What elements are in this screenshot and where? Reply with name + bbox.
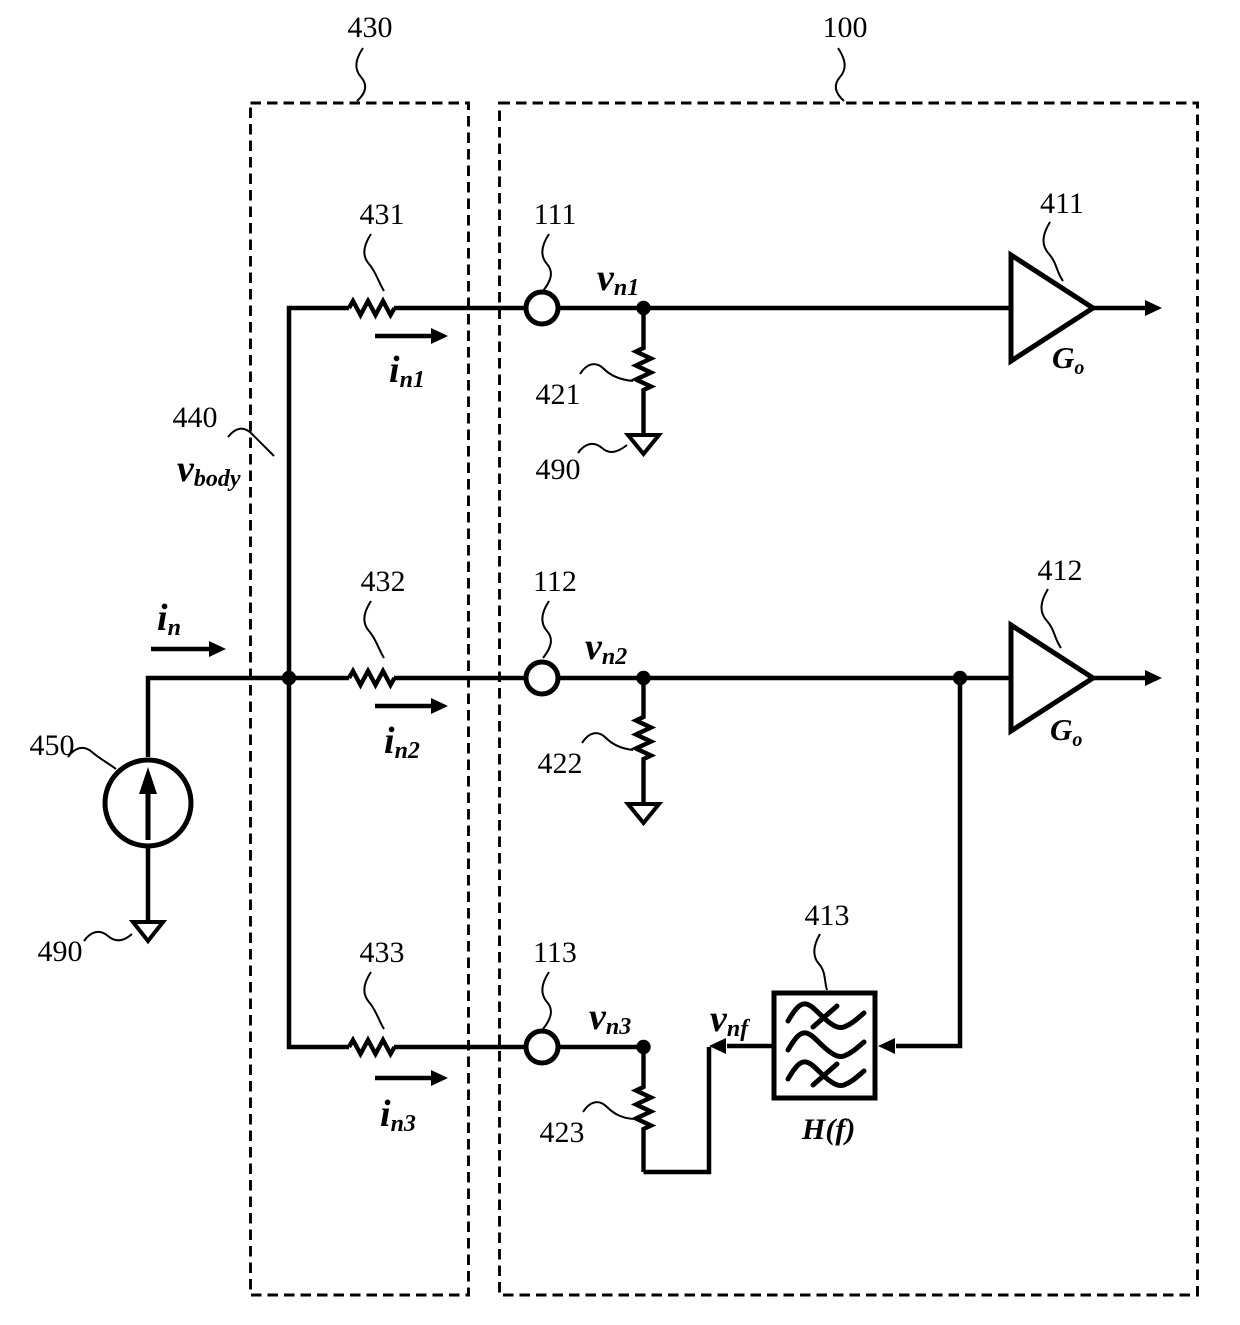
leader squiggle for 432 xyxy=(364,601,384,658)
label 490 (ground of 421) xyxy=(536,453,581,486)
leader squiggle for 423 xyxy=(583,1102,633,1119)
leader squiggle for 450 xyxy=(68,748,116,769)
leader squiggle for 430 xyxy=(356,48,365,101)
arrowhead at v_nf corner xyxy=(709,1038,726,1054)
node label v_n2 xyxy=(585,626,627,670)
filter wave bottom with slash xyxy=(788,1062,864,1086)
current label i_n3 xyxy=(380,1093,416,1137)
current label i_n2 xyxy=(384,720,420,764)
label 411 xyxy=(1040,187,1084,220)
wire: terminal 112 to amplifier 412 input xyxy=(559,676,1011,681)
gain label G_o of 411 xyxy=(1052,340,1084,379)
svg-text:in: in xyxy=(157,597,181,641)
leader squiggle for 490 upper xyxy=(578,444,627,453)
label 100 xyxy=(823,11,868,44)
terminal circle 111 xyxy=(526,292,558,324)
svg-text:490: 490 xyxy=(38,935,83,968)
svg-text:100: 100 xyxy=(823,11,868,44)
wire: resistor 431 to terminal 111 xyxy=(394,306,525,311)
label 440 xyxy=(173,401,218,434)
node label v_body xyxy=(177,448,241,492)
leader squiggle for 111 xyxy=(542,234,551,291)
leader squiggle for 490 lower left xyxy=(84,932,132,941)
leader squiggle for 433 xyxy=(364,972,384,1029)
svg-text:433: 433 xyxy=(360,936,405,969)
svg-text:112: 112 xyxy=(533,565,577,598)
svg-text:421: 421 xyxy=(536,378,581,411)
label 113 xyxy=(533,936,577,969)
svg-text:Go: Go xyxy=(1050,712,1082,751)
junction dot at bus row 2 xyxy=(282,671,296,685)
node label v_n1 xyxy=(597,257,639,301)
svg-text:in1: in1 xyxy=(389,349,425,393)
terminal circle 113 xyxy=(526,1031,558,1063)
filter 413 box xyxy=(774,993,875,1098)
junction dot feedback takeoff xyxy=(953,671,967,685)
current label i_n xyxy=(157,597,181,641)
node dot v_n3 xyxy=(636,1040,650,1054)
dashed block 100 (amplifier system) xyxy=(500,103,1198,1295)
current source 450 xyxy=(105,760,191,846)
amplifier 411 xyxy=(1011,255,1093,361)
current arrow i_n xyxy=(151,641,226,657)
wire: resistor 432 to terminal 112 xyxy=(394,676,525,681)
leader squiggle for 413 xyxy=(814,934,827,990)
svg-text:450: 450 xyxy=(30,729,75,762)
node label v_n3 xyxy=(589,996,631,1040)
wire: terminal 113 to node v_n3 xyxy=(559,1045,644,1050)
wire: resistor 423 bottom to v_nf corner xyxy=(644,1047,710,1172)
leader squiggle for 440 xyxy=(228,429,274,456)
svg-text:H(f): H(f) xyxy=(801,1113,855,1146)
leader squiggle for 113 xyxy=(542,972,551,1029)
label 422 xyxy=(538,747,583,780)
svg-text:422: 422 xyxy=(538,747,583,780)
wire: resistor 433 to terminal 113 xyxy=(394,1045,525,1050)
leader squiggle for 422 xyxy=(582,733,633,750)
filter wave top with slash xyxy=(788,1004,864,1028)
svg-text:423: 423 xyxy=(540,1116,585,1149)
resistor 421 xyxy=(636,308,651,435)
svg-text:Go: Go xyxy=(1052,340,1084,379)
label 421 xyxy=(536,378,581,411)
label 490 (lower left ground) xyxy=(38,935,83,968)
wire: terminal 111 to amplifier 411 input xyxy=(559,306,1011,311)
wire: filter 413 output toward v_nf xyxy=(727,1044,772,1049)
wire: current source to ground xyxy=(146,846,151,922)
ground below resistor 421 xyxy=(628,435,659,454)
label 430 xyxy=(348,11,393,44)
svg-text:432: 432 xyxy=(361,565,406,598)
svg-text:vnf: vnf xyxy=(710,998,750,1042)
svg-text:vn1: vn1 xyxy=(597,257,639,301)
current label i_n1 xyxy=(389,349,425,393)
leader squiggle for 431 xyxy=(364,234,384,291)
label 111 xyxy=(534,198,577,231)
arrowhead into filter 413 right side xyxy=(878,1038,895,1054)
resistor 422 xyxy=(636,678,651,804)
resistor 431 xyxy=(349,301,395,315)
leader squiggle for 112 xyxy=(542,601,551,658)
amplifier 412 xyxy=(1011,625,1093,731)
node label v_nf xyxy=(710,998,750,1042)
label 433 xyxy=(360,936,405,969)
dashed block 430 (splitting network) xyxy=(251,103,469,1295)
ground below current source xyxy=(133,922,163,941)
output arrow of amplifier 411 xyxy=(1093,300,1162,316)
current arrow i_n1 xyxy=(375,328,448,344)
filter wave middle xyxy=(788,1033,864,1057)
resistor 433 xyxy=(349,1040,395,1054)
ground below resistor 422 xyxy=(628,804,659,823)
svg-text:vbody: vbody xyxy=(177,448,241,492)
svg-text:440: 440 xyxy=(173,401,218,434)
label 432 xyxy=(361,565,406,598)
label 112 xyxy=(533,565,577,598)
svg-text:vn3: vn3 xyxy=(589,996,631,1040)
wire: current source to junction (node 440 bus) xyxy=(148,678,349,757)
svg-text:in3: in3 xyxy=(380,1093,416,1137)
svg-text:412: 412 xyxy=(1038,554,1083,587)
label 450 xyxy=(30,729,75,762)
gain label G_o of 412 xyxy=(1050,712,1082,751)
filter label H(f) xyxy=(801,1113,855,1146)
resistor 432 xyxy=(349,671,395,685)
wire: vertical bus v_body with corners to rows 1 and 3 xyxy=(289,308,349,1047)
svg-text:111: 111 xyxy=(534,198,577,231)
leader squiggle for 412 xyxy=(1041,589,1061,648)
terminal circle 112 xyxy=(526,662,558,694)
label 423 xyxy=(540,1116,585,1149)
feedback wire from amplifier 412 input junction down to filter 413 xyxy=(896,678,960,1046)
label 431 xyxy=(360,198,405,231)
label 413 xyxy=(805,899,850,932)
svg-text:in2: in2 xyxy=(384,720,420,764)
leader squiggle for 411 xyxy=(1043,222,1063,281)
current arrow i_n3 xyxy=(375,1070,448,1086)
svg-text:113: 113 xyxy=(533,936,577,969)
output arrow of amplifier 412 xyxy=(1093,670,1162,686)
current arrow i_n2 xyxy=(375,698,448,714)
svg-text:411: 411 xyxy=(1040,187,1084,220)
resistor 423 xyxy=(636,1047,651,1172)
svg-text:vn2: vn2 xyxy=(585,626,627,670)
node dot v_n2 xyxy=(636,671,650,685)
svg-text:430: 430 xyxy=(348,11,393,44)
svg-text:431: 431 xyxy=(360,198,405,231)
leader squiggle for 100 xyxy=(836,48,845,101)
leader squiggle for 421 xyxy=(580,364,633,381)
label 412 xyxy=(1038,554,1083,587)
svg-text:413: 413 xyxy=(805,899,850,932)
node dot v_n1 xyxy=(636,301,650,315)
svg-text:490: 490 xyxy=(536,453,581,486)
